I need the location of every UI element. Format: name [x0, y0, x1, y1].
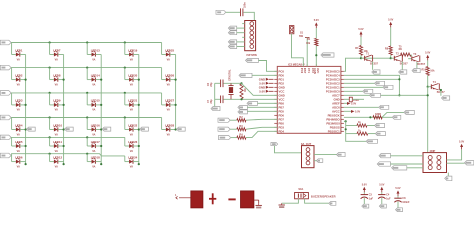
junction cathode col3 row4	[100, 128, 102, 130]
junction cathode col1 row3	[25, 104, 27, 106]
wire R3 right to IC	[246, 127, 277, 129]
junction pin16	[345, 128, 347, 130]
net flag ROW2	[0, 65, 11, 70]
net flag row A input	[218, 118, 230, 122]
svg-text:LED22: LED22	[128, 123, 137, 127]
net flag MISO (ISP)	[228, 26, 236, 30]
wire T4 rail down to SV3	[427, 87, 429, 153]
wire VCC to R10	[427, 60, 429, 66]
svg-text:5.0V: 5.0V	[395, 187, 400, 190]
junction T1 base	[360, 57, 362, 59]
junction row1 col3	[86, 41, 88, 43]
junction pin13	[369, 116, 371, 118]
junction cathode col2 row5	[63, 145, 65, 147]
wire buzzer left leg	[282, 199, 299, 203]
junction cathode col3 row5	[100, 145, 102, 147]
svg-text:SG1: SG1	[298, 188, 304, 191]
svg-text:VA: VA	[55, 150, 58, 153]
net flag pin6	[363, 89, 373, 93]
supply 5.0V at pin6	[259, 89, 273, 93]
wire cathode column 2 vertical	[63, 55, 65, 165]
junction row5 col3	[86, 136, 88, 138]
wire pin8 net left	[344, 98, 349, 100]
battery minus sign	[228, 198, 235, 200]
LED8 row2 col2	[50, 73, 64, 86]
svg-text:VA: VA	[55, 58, 58, 61]
resistor R10 (T4 base)	[422, 67, 436, 76]
svg-text:LED23: LED23	[128, 140, 137, 144]
junction cathode col5 row3	[175, 104, 177, 106]
LED2 row2 col1	[12, 73, 26, 86]
junction row4 col4	[124, 116, 126, 118]
supply 5.0V at pin4	[259, 81, 273, 85]
net flag SV3 in3	[392, 166, 407, 170]
svg-text:5.0V: 5.0V	[362, 183, 367, 186]
wire pin3 net	[344, 78, 400, 80]
junction reset net	[315, 54, 317, 56]
junction cathode col1 row4	[25, 128, 27, 130]
net flag row B input	[218, 127, 230, 131]
capacitor C3	[361, 192, 374, 204]
junction row2 col3	[86, 67, 88, 69]
wire SCK to SV1	[237, 32, 245, 34]
svg-text:5.0V: 5.0V	[351, 103, 356, 106]
buzzer SG1	[295, 188, 336, 199]
wire anode stub row1 col5	[161, 43, 163, 55]
net flag column C1	[27, 127, 36, 131]
LED3 row3 col1	[12, 99, 26, 112]
svg-text:LED13: LED13	[91, 48, 100, 52]
junction pin7 at rail	[427, 94, 429, 96]
wire anode stub row4 col1	[11, 118, 13, 130]
svg-text:CRYSTAL: CRYSTAL	[228, 69, 231, 81]
resistor R7 (T1 base)	[355, 46, 368, 56]
supply 5.0V cap C4	[379, 183, 384, 192]
svg-text:VA: VA	[55, 83, 58, 86]
svg-text:1M: 1M	[244, 89, 247, 92]
wire pin13 diagonal to flag	[370, 112, 404, 117]
wire cap C7 to IC pin8	[223, 98, 277, 100]
svg-text:VA: VA	[130, 109, 133, 112]
wire T1 collector down	[372, 61, 374, 69]
svg-text:LED18: LED18	[91, 155, 100, 159]
net flag pin4	[375, 81, 385, 85]
junction cathode col4 row5	[138, 145, 140, 147]
svg-text:PB1/OC1: PB1/OC1	[328, 129, 340, 133]
wire row 2 horizontal	[11, 67, 162, 69]
svg-text:VA: VA	[92, 83, 95, 86]
LED4 row4 col1	[12, 123, 26, 136]
svg-text:LED21: LED21	[128, 99, 137, 103]
battery pad G1 negative	[241, 191, 254, 208]
svg-text:LED4: LED4	[15, 123, 23, 127]
junction cathode col5 row2	[175, 79, 177, 81]
wire pin5 net	[344, 86, 390, 88]
svg-text:5.0V: 5.0V	[314, 19, 319, 22]
wire R9 to T3	[411, 55, 412, 57]
svg-text:PC6: PC6	[300, 68, 304, 74]
wire JP1 to IC top pin1	[292, 34, 304, 67]
wire R4 right to IC	[246, 131, 277, 137]
svg-text:XT1: XT1	[307, 68, 311, 73]
svg-text:VA: VA	[92, 109, 95, 112]
net flag GND under crystal caps	[211, 107, 220, 111]
net flag at pin10	[238, 105, 248, 109]
net flag under T4	[442, 96, 450, 100]
LED9 row3 col2	[50, 99, 64, 112]
wire pin15 R13 row	[346, 125, 357, 127]
connector JP1 2-pin	[290, 26, 294, 34]
svg-text:IC2 MEGA8-P: IC2 MEGA8-P	[288, 62, 305, 66]
wire SV1 pin1 stub	[242, 23, 245, 25]
svg-text:LED1: LED1	[15, 48, 23, 52]
wire R10 to junction	[427, 76, 429, 87]
svg-text:LED24: LED24	[128, 155, 137, 159]
svg-text:LED27: LED27	[165, 99, 174, 103]
wire anode stub row1 col1	[11, 43, 13, 55]
resistor R13	[357, 121, 367, 127]
svg-text:VA: VA	[167, 83, 170, 86]
svg-text:VA: VA	[130, 133, 133, 136]
net flag ROW6	[0, 153, 11, 158]
svg-text:330R: 330R	[375, 113, 381, 116]
wire anode stub row3 col2	[49, 93, 51, 105]
svg-text:LED6: LED6	[15, 155, 23, 159]
svg-text:LED14: LED14	[91, 73, 100, 77]
wire anode stub row1 col2	[49, 43, 51, 55]
wire anode stub row2 col1	[11, 68, 13, 80]
svg-text:VA: VA	[130, 58, 133, 61]
wire T4 collector down	[439, 90, 441, 96]
LED21 row3 col4	[125, 99, 139, 112]
wire anode stub row4 col4	[124, 118, 126, 130]
wire pin4 net	[344, 82, 375, 84]
net flag ROW5	[0, 135, 11, 140]
wire VCC to R8	[390, 27, 392, 46]
svg-text:LED2: LED2	[15, 73, 23, 77]
svg-text:VA: VA	[17, 83, 20, 86]
net flag under T3	[412, 69, 420, 73]
svg-text:5.0V: 5.0V	[358, 28, 363, 31]
svg-text:BC557: BC557	[417, 63, 425, 66]
wire SV3 in3	[407, 167, 423, 169]
supply 5.0V reset	[314, 19, 319, 28]
battery pad G1 pin	[175, 194, 191, 199]
svg-text:VA: VA	[17, 165, 20, 168]
wire anode stub row5 col1	[11, 137, 13, 146]
wire anode stub row4 col3	[86, 118, 88, 130]
wire MISO to SV1	[237, 27, 245, 29]
LED6 row6 col1	[12, 155, 26, 168]
wire anode stub row3 col5	[161, 93, 163, 105]
net flag GND under C3	[362, 204, 369, 208]
wire R14 to flag	[368, 133, 376, 135]
wire flag to pin10	[247, 106, 277, 108]
svg-text:5.0V: 5.0V	[425, 51, 430, 54]
ground at buzzer left	[279, 203, 285, 208]
wire anode stub row4 col5	[161, 118, 163, 130]
wire anode stub row1 col3	[86, 43, 88, 55]
junction row6 col3	[86, 153, 88, 155]
junction xtal top	[240, 82, 242, 84]
svg-text:VA: VA	[92, 58, 95, 61]
svg-text:R10: R10	[422, 69, 427, 72]
supply 5.0V T2 cell	[388, 18, 393, 27]
capacitor C6	[207, 80, 223, 88]
resistor R3	[237, 125, 246, 131]
net flag TXD (pin PD0)	[239, 73, 252, 77]
LED24 row6 col4	[125, 155, 139, 168]
net flag far right pin13b	[404, 110, 414, 114]
LED1 row1 col1	[12, 48, 26, 61]
LED16 row4 col3	[87, 123, 101, 136]
wire R8 to junction	[390, 55, 392, 58]
wire anode stub row6 col2	[49, 154, 51, 162]
wire xtal bottom net	[215, 98, 221, 100]
junction row2 col2	[49, 67, 51, 69]
wire anode stub row3 col4	[124, 93, 126, 105]
supply 5.0V T4 cell	[425, 51, 430, 60]
net flag column C3	[102, 127, 111, 131]
net flag at pin11	[238, 110, 248, 114]
wire buzzer right leg	[305, 199, 329, 203]
resistor R5 330R	[373, 113, 382, 119]
svg-text:LED9: LED9	[53, 99, 61, 103]
resistor R1 10k (reset pullup)	[306, 38, 318, 46]
wire pin1 to drivers rail	[344, 58, 391, 71]
wire anode stub row2 col2	[49, 68, 51, 80]
junction cathode col4 row3	[138, 104, 140, 106]
resistor R12 (pin8 series)	[349, 97, 359, 102]
wire S1 to IC top pin2	[306, 38, 308, 67]
net flag R13 out	[375, 124, 385, 128]
svg-text:5.0V: 5.0V	[459, 140, 464, 143]
net flag pin10	[379, 105, 389, 109]
LED13 row1 col3	[87, 48, 101, 61]
wire SV3 right flag stub	[447, 162, 465, 164]
wire caps gnd vertical	[214, 83, 216, 106]
supply 5.0V cap C8	[395, 187, 400, 196]
net flag RXD (pin PC6)	[246, 58, 259, 62]
svg-text:LED8: LED8	[53, 73, 61, 77]
junction row3 col2	[49, 92, 51, 94]
battery plus sign	[209, 193, 216, 204]
svg-text:AGN: AGN	[313, 68, 317, 74]
connector SV2 8A_OUT	[301, 142, 314, 168]
svg-text:VA: VA	[92, 150, 95, 153]
LED12 row6 col2	[50, 155, 64, 168]
wire SV2 right	[314, 153, 337, 155]
wire pin7 net	[344, 94, 428, 96]
wire VCC to SV3 right	[447, 149, 462, 160]
wire VCC to R7	[360, 37, 362, 46]
wire VCC to R1	[315, 28, 317, 38]
wire C2 flag to SV2	[275, 146, 302, 153]
wire T2 collector down	[401, 61, 403, 69]
junction row3 col4	[124, 92, 126, 94]
transistor T4	[428, 81, 445, 94]
svg-text:VA: VA	[167, 109, 170, 112]
junction row1 col2	[49, 41, 51, 43]
wire row 4 horizontal	[11, 117, 162, 119]
net flag GND at SV2	[316, 159, 322, 163]
svg-text:BUZZER/SPEAKER: BUZZER/SPEAKER	[311, 195, 336, 199]
junction xtal bottom	[240, 98, 242, 100]
svg-text:VA: VA	[17, 109, 20, 112]
net flag SV3 in2	[377, 162, 390, 166]
resistor R14	[357, 129, 368, 135]
net flag under T2	[399, 70, 407, 74]
net flag under T1	[372, 70, 380, 74]
svg-text:VA: VA	[55, 165, 58, 168]
wire anode stub row2 col4	[124, 68, 126, 80]
wire flag to pin11	[247, 110, 277, 112]
svg-text:22p: 22p	[210, 99, 213, 104]
resistor R2	[237, 116, 246, 122]
LED20 row2 col4	[125, 73, 139, 86]
wire anode stub row2 col5	[161, 68, 163, 80]
crystal Q1	[228, 69, 233, 99]
junction T2 base	[390, 57, 392, 59]
junction row1 col4	[124, 41, 126, 43]
junction cathode col1 row6	[25, 163, 27, 165]
svg-text:1uF: 1uF	[386, 198, 391, 201]
junction cathode col3 row3	[100, 104, 102, 106]
wire cap C6 to junction	[223, 82, 241, 84]
wire SV3 in1	[391, 155, 424, 157]
LED7 row1 col2	[50, 48, 64, 61]
junction row6 col2	[49, 153, 51, 155]
wire row 1 horizontal	[11, 42, 162, 44]
LED22 row4 col4	[125, 123, 139, 136]
svg-text:VA: VA	[17, 150, 20, 153]
svg-text:5.0V: 5.0V	[355, 111, 360, 114]
junction pin14	[345, 120, 347, 122]
wire cap C5 to SV1	[243, 12, 254, 20]
svg-text:LED25: LED25	[165, 48, 174, 52]
wire R5 to flag	[382, 116, 392, 118]
svg-text:VA: VA	[167, 58, 170, 61]
svg-text:100nF: 100nF	[402, 201, 410, 204]
junction T4 base	[427, 86, 429, 88]
svg-text:5.0V: 5.0V	[259, 89, 265, 93]
capacitor C8	[394, 196, 410, 208]
svg-text:VA: VA	[17, 58, 20, 61]
wire RST to SV1	[237, 46, 245, 48]
svg-text:VA: VA	[55, 109, 58, 112]
wire row 3 horizontal	[11, 92, 162, 94]
LED10 row4 col2	[50, 123, 64, 136]
transistor T3	[408, 53, 425, 66]
LED25 row1 col5	[162, 48, 176, 61]
svg-text:VA: VA	[92, 133, 95, 136]
junction row5 col2	[49, 136, 51, 138]
transistor T1	[361, 52, 378, 65]
svg-text:VA: VA	[130, 83, 133, 86]
svg-text:LED28: LED28	[165, 123, 174, 127]
wire R13 to flag	[367, 125, 375, 127]
net flag end of left rail	[366, 139, 377, 143]
svg-text:VA: VA	[17, 133, 20, 136]
svg-text:LED5: LED5	[15, 140, 23, 144]
svg-text:VA: VA	[167, 133, 170, 136]
wire R2 right to IC	[246, 118, 277, 121]
wire T3 collector down	[416, 62, 418, 69]
LED26 row2 col5	[162, 73, 176, 86]
svg-text:VA: VA	[130, 150, 133, 153]
junction cathode col5 row4	[175, 128, 177, 130]
junction cathode col1 row2	[25, 79, 27, 81]
net flag pin13 out	[392, 115, 401, 119]
wire anode stub row1 col4	[124, 43, 126, 55]
wire R4 to resistor	[231, 137, 237, 139]
wire SV3 bottom stub	[447, 173, 449, 177]
junction cathode col1 row5	[25, 145, 27, 147]
wire SV3 in2	[391, 163, 424, 165]
resistor R8 (T2 base)	[385, 46, 392, 55]
junction row3 col3	[86, 92, 88, 94]
junction cathode col2 row3	[63, 104, 65, 106]
wire anode stub row6 col4	[124, 156, 126, 162]
net flag GND under C4	[379, 204, 386, 208]
wire pin8 net right	[352, 98, 364, 100]
svg-text:VA: VA	[92, 165, 95, 168]
LED14 row2 col3	[87, 73, 101, 86]
svg-text:8A_OUT: 8A_OUT	[301, 142, 312, 146]
capacitor C4	[378, 192, 391, 204]
svg-text:BC557: BC557	[400, 63, 408, 66]
net flag column C5	[177, 127, 186, 131]
svg-text:LED7: LED7	[53, 48, 61, 52]
LED28 row4 col5	[162, 123, 176, 136]
wire R3 to resistor	[230, 128, 237, 130]
net flag right of SV2	[337, 153, 346, 157]
net flag SCK (ISP)	[228, 31, 236, 35]
svg-text:22p: 22p	[210, 82, 213, 87]
junction row2 col4	[124, 67, 126, 69]
net flag buzzer right	[329, 202, 336, 206]
wire cathode column 5 vertical	[175, 55, 177, 130]
junction cathode col4 row2	[138, 79, 140, 81]
wire xtal top net	[215, 82, 221, 84]
svg-text:LED16: LED16	[91, 123, 100, 127]
wire MOSI to SV1	[237, 41, 245, 43]
resistor R4	[237, 133, 246, 139]
supply 5.0V T1 cell	[358, 28, 363, 37]
junction cathode col2 row6	[63, 163, 65, 165]
svg-text:SW: SW	[299, 35, 304, 38]
junction cathode col2 row2	[63, 79, 65, 81]
resistor R9 (T3 base)	[399, 45, 411, 56]
wire anode stub row5 col2	[49, 137, 51, 146]
net flag RST (ISP)	[228, 45, 236, 49]
svg-text:LED20: LED20	[128, 73, 137, 77]
svg-text:LED17: LED17	[91, 140, 100, 144]
IC2 pins and pin labels	[274, 64, 344, 133]
svg-text:LED11: LED11	[53, 140, 62, 144]
net flag pin7	[370, 93, 381, 97]
wire R7 to junction	[360, 55, 362, 58]
svg-text:BC557: BC557	[370, 63, 378, 66]
capacitor C7	[207, 96, 223, 104]
IC2 MEGA8-P body	[277, 62, 341, 133]
junction pin3 on vertical	[398, 78, 400, 80]
LED5 row5 col1	[12, 140, 26, 153]
wire SV2 lower right stub	[314, 160, 316, 162]
wire SV1 pin4 stub	[242, 36, 245, 38]
wire row 5 horizontal	[11, 136, 125, 138]
resistor R6 1M (xtal)	[240, 84, 247, 99]
